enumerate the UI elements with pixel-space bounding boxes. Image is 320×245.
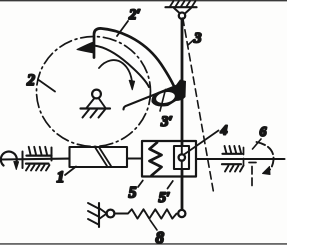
pawl eye (white hole)	[155, 90, 176, 104]
pin rod segments inside slider 4	[181, 146, 183, 169]
shaft collar tick	[22, 152, 24, 169]
bottom anchor support of spring 8	[88, 203, 107, 227]
svg-text:1: 1	[57, 169, 65, 186]
svg-text:4: 4	[220, 124, 228, 139]
label 3'	[160, 90, 173, 131]
svg-text:5: 5	[129, 185, 137, 202]
right guide support 6 (hatched)	[222, 146, 244, 172]
slider block 1	[70, 147, 128, 167]
pawl claw body (filled)	[151, 80, 186, 107]
label 2'	[117, 7, 141, 36]
hinge pin of link 3	[179, 13, 185, 19]
svg-text:6: 6	[260, 125, 267, 140]
dashed crank elbow	[249, 163, 256, 187]
slider 4 (block with pin)	[174, 146, 189, 169]
wedge joint of band on wheel (filled)	[77, 42, 94, 53]
link 3 (vertical rod)	[181, 19, 184, 210]
rim arc of sector	[94, 46, 149, 88]
housing 5	[142, 141, 196, 177]
dashed crank mark near support	[243, 148, 245, 168]
lever pawl (link to band)	[124, 84, 182, 110]
svg-text:5′: 5′	[159, 190, 171, 206]
label 5	[129, 181, 143, 202]
coupler shaft between slider 1 and housing 5	[127, 157, 142, 159]
band sector 2' (outer thick arc with hook)	[94, 28, 177, 92]
spring 8	[115, 209, 179, 218]
svg-text:3: 3	[193, 31, 202, 47]
label 1	[57, 167, 77, 187]
label 8	[150, 220, 165, 245]
dashed alternate position of link 3	[183, 18, 214, 192]
label 5'	[159, 181, 173, 206]
top fixed support of link 3	[166, 1, 197, 13]
label 2	[26, 72, 55, 92]
pivot support of wheel 2	[81, 90, 111, 118]
pin joining spring 8 and link 3	[178, 210, 185, 217]
label 6	[253, 125, 267, 149]
right shaft	[196, 158, 285, 160]
rotation arrow inside wheel	[99, 60, 132, 81]
left guide support (hatched)	[26, 147, 52, 171]
svg-text:2′: 2′	[128, 7, 141, 23]
svg-text:2: 2	[26, 72, 35, 89]
spring inside housing 5	[150, 143, 162, 176]
wheel 2 (dash-dot pitch circle)	[37, 37, 151, 147]
left shaft	[2, 158, 70, 161]
svg-text:3′: 3′	[160, 114, 173, 130]
label 3	[189, 31, 203, 47]
anchor pivot circle	[107, 210, 115, 218]
diagonal stripe inside slider 1	[96, 148, 112, 166]
pin 4 (roller)	[179, 154, 185, 160]
input rotation arrow (left end)	[1, 152, 17, 166]
output rotation arrow (dash-dot arc)	[257, 142, 274, 173]
label 4	[184, 124, 228, 155]
